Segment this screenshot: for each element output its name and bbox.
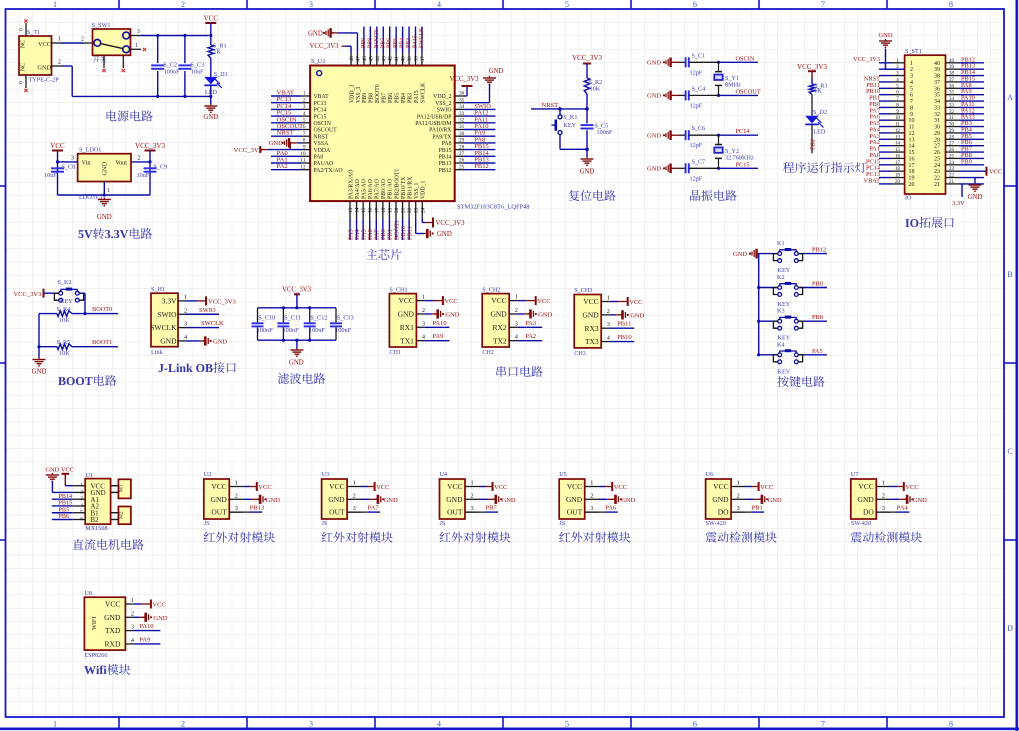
svg-text:PA15: PA15 [413, 35, 419, 48]
svg-text:VBAT: VBAT [864, 177, 881, 184]
svg-text:28: 28 [459, 144, 465, 150]
svg-text:CH2: CH2 [482, 349, 494, 356]
svg-text:GND: GND [37, 65, 51, 72]
svg-text:PB9: PB9 [362, 93, 368, 103]
svg-text:RXD: RXD [105, 640, 121, 649]
svg-text:PB12: PB12 [812, 247, 826, 254]
svg-text:10uF: 10uF [191, 69, 204, 76]
svg-text:2: 2 [471, 492, 474, 499]
svg-text:20: 20 [909, 182, 915, 188]
svg-text:PB8: PB8 [812, 314, 823, 321]
svg-text:PB15: PB15 [59, 501, 73, 507]
svg-text:0: 0 [19, 28, 25, 31]
svg-text:PB1/AO: PB1/AO [388, 179, 394, 199]
svg-text:27: 27 [459, 151, 465, 157]
svg-text:VCC: VCC [713, 482, 728, 491]
svg-text:26: 26 [459, 158, 465, 164]
svg-text:PA2: PA2 [277, 163, 288, 170]
svg-text:VDDA: VDDA [314, 148, 332, 154]
svg-text:17: 17 [909, 163, 915, 169]
svg-text:2: 2 [910, 67, 913, 73]
svg-text:35: 35 [949, 91, 955, 96]
svg-text:39: 39 [407, 56, 413, 62]
svg-text:1: 1 [135, 43, 138, 49]
svg-text:S_T1: S_T1 [27, 29, 40, 36]
svg-text:VCC_3V3: VCC_3V3 [14, 291, 42, 298]
svg-text:VCC_3V3: VCC_3V3 [436, 220, 466, 227]
svg-text:PB5: PB5 [393, 38, 399, 48]
svg-text:12: 12 [909, 131, 915, 137]
svg-text:PA4: PA4 [897, 505, 909, 512]
svg-text:CH1: CH1 [389, 349, 401, 356]
svg-text:32: 32 [949, 110, 955, 115]
svg-text:1: 1 [235, 480, 238, 487]
svg-text:13: 13 [909, 137, 915, 143]
svg-text:PB6: PB6 [388, 93, 394, 103]
svg-text:VCC: VCC [567, 482, 582, 491]
svg-text:VBAT: VBAT [314, 94, 330, 100]
svg-text:3: 3 [235, 505, 238, 512]
svg-text:GND: GND [913, 497, 927, 504]
svg-text:10uF: 10uF [44, 172, 57, 179]
svg-text:GND: GND [647, 93, 661, 100]
svg-text:46: 46 [362, 56, 368, 62]
svg-text:VCC: VCC [760, 484, 773, 491]
svg-text:S_C6: S_C6 [692, 125, 706, 132]
svg-text:GND: GND [266, 497, 280, 504]
svg-text:PB2/BOOT1: PB2/BOOT1 [394, 169, 400, 199]
svg-text:8: 8 [303, 138, 306, 144]
svg-text:VCC: VCC [905, 484, 918, 491]
svg-text:37: 37 [934, 80, 940, 86]
svg-text:Vout: Vout [115, 160, 127, 167]
svg-text:3: 3 [309, 719, 313, 728]
svg-text:GND: GND [582, 310, 599, 319]
svg-text:PB14: PB14 [439, 155, 452, 161]
svg-text:RX1: RX1 [400, 323, 414, 332]
svg-text:VCC: VCC [38, 41, 51, 48]
svg-text:10K: 10K [590, 86, 601, 93]
svg-text:30: 30 [934, 125, 940, 131]
svg-text:6: 6 [693, 719, 697, 728]
svg-text:S_CH2: S_CH2 [482, 286, 500, 293]
svg-text:GND: GND [647, 133, 661, 140]
svg-text:U5: U5 [559, 471, 567, 478]
svg-text:GND: GND [102, 161, 109, 175]
svg-text:25: 25 [459, 164, 465, 170]
svg-text:3.3V: 3.3V [162, 297, 177, 306]
svg-text:PA2/TX/AO: PA2/TX/AO [314, 168, 343, 174]
svg-text:PC13: PC13 [314, 101, 327, 107]
svg-text:BOOT1: BOOT1 [92, 339, 112, 346]
svg-text:GND: GND [153, 615, 167, 622]
svg-text:18: 18 [381, 207, 387, 213]
svg-text:32: 32 [459, 118, 465, 124]
svg-text:21: 21 [934, 182, 940, 188]
svg-text:OSCIN: OSCIN [736, 55, 755, 62]
svg-text:2: 2 [58, 60, 61, 66]
svg-text:PA10: PA10 [432, 320, 446, 327]
svg-text:S_C13: S_C13 [337, 315, 354, 322]
svg-text:PA10: PA10 [139, 623, 153, 630]
svg-text:2: 2 [353, 492, 356, 499]
svg-text:S_U1: S_U1 [311, 58, 326, 65]
svg-text:1: 1 [737, 480, 740, 487]
svg-text:PB12: PB12 [474, 163, 488, 170]
svg-text:ESP8266: ESP8266 [84, 652, 107, 659]
svg-text:PC14: PC14 [314, 108, 327, 114]
svg-text:BOOT0: BOOT0 [374, 29, 380, 48]
svg-text:38: 38 [414, 56, 420, 62]
svg-text:3: 3 [590, 505, 593, 512]
svg-text:30: 30 [949, 123, 955, 128]
svg-text:SWCLK: SWCLK [150, 323, 177, 332]
svg-text:1: 1 [303, 91, 306, 97]
svg-text:29: 29 [459, 138, 465, 144]
svg-text:VCC: VCC [537, 298, 550, 305]
svg-text:LED: LED [813, 128, 826, 135]
svg-text:VCC_3V3: VCC_3V3 [853, 56, 880, 63]
svg-text:2: 2 [882, 492, 885, 499]
svg-text:21: 21 [949, 180, 955, 185]
svg-text:JS: JS [559, 520, 565, 527]
svg-text:22: 22 [407, 207, 413, 213]
svg-text:8: 8 [910, 105, 913, 111]
svg-text:PB4: PB4 [401, 93, 407, 103]
svg-text:1: 1 [607, 295, 610, 302]
svg-text:15: 15 [909, 150, 915, 156]
svg-text:15: 15 [361, 207, 367, 213]
svg-text:S_K2: S_K2 [58, 279, 72, 286]
svg-text:K4: K4 [777, 341, 785, 348]
svg-text:B2: B2 [91, 516, 100, 524]
svg-text:S_C8: S_C8 [62, 164, 76, 171]
svg-text:1: 1 [882, 480, 885, 487]
svg-text:37: 37 [420, 56, 426, 62]
svg-text:2: 2 [737, 492, 740, 499]
svg-text:VSS_1: VSS_1 [414, 182, 420, 199]
svg-text:S_C4: S_C4 [692, 85, 706, 92]
svg-text:41: 41 [394, 56, 400, 62]
svg-text:32.768KHz: 32.768KHz [725, 154, 754, 161]
svg-text:VCC: VCC [376, 484, 389, 491]
svg-text:PA7: PA7 [368, 505, 380, 512]
svg-text:3: 3 [607, 321, 610, 328]
svg-text:SW-420: SW-420 [851, 520, 871, 527]
svg-text:VCC: VCC [494, 484, 507, 491]
svg-text:PA6/AO: PA6/AO [368, 179, 374, 199]
svg-text:STM32F103C8T6_LQFP48: STM32F103C8T6_LQFP48 [457, 204, 529, 211]
svg-text:TX2: TX2 [493, 336, 507, 345]
svg-text:VCC: VCC [398, 296, 413, 305]
svg-text:PB5: PB5 [394, 93, 400, 103]
svg-text:VCC: VCC [61, 467, 74, 474]
svg-text:PB2: PB2 [809, 139, 816, 150]
svg-text:2: 2 [80, 489, 83, 495]
svg-text:3: 3 [353, 505, 356, 512]
svg-text:B: B [1007, 270, 1012, 279]
svg-text:CH3: CH3 [574, 350, 586, 357]
svg-text:6: 6 [693, 0, 697, 9]
svg-text:1: 1 [53, 719, 57, 728]
svg-text:TYPE-C-2P: TYPE-C-2P [29, 77, 60, 84]
svg-text:VCC_3V3: VCC_3V3 [135, 142, 165, 150]
svg-text:1: 1 [910, 61, 913, 67]
svg-text:5: 5 [910, 86, 913, 92]
svg-text:19: 19 [909, 176, 915, 182]
svg-text:K2: K2 [777, 274, 785, 281]
svg-text:NRST: NRST [314, 134, 329, 140]
svg-text:23: 23 [414, 207, 420, 213]
svg-text:GND: GND [712, 495, 729, 504]
svg-text:S_LDO1: S_LDO1 [79, 147, 101, 154]
svg-text:JS: JS [204, 520, 210, 527]
svg-text:2: 2 [131, 610, 134, 617]
svg-text:12pF: 12pF [690, 175, 703, 182]
svg-text:1: 1 [184, 294, 187, 301]
svg-text:GND: GND [630, 312, 644, 319]
svg-text:PA10/RX: PA10/RX [429, 128, 452, 134]
svg-text:PB13: PB13 [250, 505, 264, 512]
svg-text:100nF: 100nF [597, 129, 613, 136]
svg-text:3: 3 [910, 74, 913, 80]
svg-text:33: 33 [949, 103, 955, 108]
svg-text:3: 3 [303, 104, 306, 110]
svg-text:34: 34 [459, 104, 465, 110]
svg-text:2: 2 [235, 492, 238, 499]
svg-text:M1: M1 [119, 484, 125, 492]
svg-text:40: 40 [934, 61, 940, 67]
svg-text:TX3: TX3 [585, 337, 599, 346]
svg-text:25: 25 [949, 154, 955, 159]
svg-text:NC: NC [21, 63, 27, 71]
svg-text:S_CH1: S_CH1 [389, 286, 407, 293]
svg-text:22: 22 [934, 176, 940, 182]
svg-text:VCC: VCC [50, 142, 65, 150]
svg-text:M2: M2 [119, 511, 125, 519]
svg-text:JS: JS [440, 520, 446, 527]
svg-text:PB7: PB7 [486, 505, 498, 512]
svg-text:MX1508: MX1508 [85, 525, 107, 532]
svg-text:PC15: PC15 [314, 114, 327, 120]
svg-text:S_SW1: S_SW1 [92, 22, 111, 29]
svg-text:PB11: PB11 [406, 226, 413, 240]
svg-text:KEY: KEY [563, 122, 576, 129]
svg-text:39: 39 [934, 67, 940, 73]
svg-text:VCC_3V3: VCC_3V3 [208, 298, 236, 305]
svg-text:S_C10: S_C10 [258, 315, 275, 322]
svg-text:S_ST1: S_ST1 [905, 48, 922, 55]
svg-text:12: 12 [300, 164, 306, 170]
svg-text:2: 2 [590, 492, 593, 499]
svg-text:1K: 1K [814, 88, 822, 95]
svg-text:2: 2 [607, 308, 610, 315]
svg-text:100nF: 100nF [257, 327, 274, 334]
svg-text:8: 8 [949, 0, 953, 9]
svg-text:PB14: PB14 [59, 494, 73, 500]
svg-text:3: 3 [137, 29, 140, 35]
svg-text:31: 31 [934, 118, 940, 124]
svg-text:2: 2 [303, 97, 306, 103]
svg-text:GND: GND [269, 140, 284, 147]
svg-text:RX2: RX2 [493, 323, 507, 332]
svg-text:35: 35 [459, 97, 465, 103]
svg-text:3: 3 [71, 155, 74, 161]
svg-text:GND: GND [398, 310, 415, 319]
svg-text:DO: DO [718, 508, 729, 517]
svg-text:100nF: 100nF [335, 327, 352, 334]
svg-text:GND: GND [32, 369, 47, 376]
svg-text:GND: GND [768, 497, 782, 504]
svg-text:100nF: 100nF [283, 327, 300, 334]
svg-text:S_K1: S_K1 [563, 114, 577, 121]
svg-text:VCC: VCC [152, 602, 165, 609]
svg-text:GND: GND [104, 613, 121, 622]
svg-text:36: 36 [934, 86, 940, 92]
svg-text:GND: GND [490, 310, 507, 319]
svg-text:GND: GND [213, 338, 227, 345]
svg-text:GND: GND [489, 68, 504, 75]
svg-text:23: 23 [949, 167, 955, 172]
svg-text:13: 13 [895, 135, 901, 140]
svg-text:11: 11 [895, 123, 900, 128]
svg-text:47: 47 [355, 56, 361, 62]
svg-text:RX3: RX3 [585, 324, 599, 333]
svg-text:NRST: NRST [277, 130, 294, 137]
svg-text:14: 14 [355, 207, 361, 213]
svg-text:PA3: PA3 [525, 320, 536, 327]
svg-text:S_R5: S_R5 [57, 339, 71, 346]
svg-text:S_D2: S_D2 [813, 109, 827, 116]
svg-text:PB6: PB6 [387, 38, 393, 48]
svg-text:VCC: VCC [105, 600, 120, 609]
svg-text:0: 0 [19, 81, 25, 84]
svg-text:1: 1 [515, 294, 518, 301]
svg-text:PB0: PB0 [812, 281, 823, 288]
svg-text:3: 3 [737, 505, 740, 512]
svg-text:2: 2 [422, 307, 425, 314]
svg-text:VCC: VCC [583, 297, 598, 306]
svg-text:GND: GND [733, 251, 747, 258]
svg-text:12pF: 12pF [690, 102, 703, 109]
svg-text:6: 6 [910, 93, 913, 99]
svg-text:33: 33 [459, 111, 465, 117]
svg-text:GND: GND [647, 60, 661, 67]
svg-text:4: 4 [303, 111, 306, 117]
svg-text:1K: 1K [213, 49, 221, 56]
svg-text:VCC_3V3: VCC_3V3 [572, 54, 602, 62]
svg-text:1: 1 [80, 483, 83, 489]
svg-text:17: 17 [374, 207, 380, 213]
svg-text:PA8: PA8 [442, 141, 452, 147]
svg-text:PA5: PA5 [812, 348, 823, 355]
svg-text:37: 37 [949, 78, 955, 83]
svg-text:2: 2 [181, 0, 185, 9]
svg-text:1: 1 [131, 597, 134, 604]
svg-text:3: 3 [471, 505, 474, 512]
svg-text:PB4: PB4 [400, 38, 406, 48]
svg-text:OSCIN: OSCIN [314, 121, 332, 127]
svg-text:19: 19 [895, 174, 901, 179]
svg-text:40: 40 [401, 56, 407, 62]
svg-text:PB8: PB8 [367, 38, 373, 48]
svg-text:PB11: PB11 [617, 321, 631, 328]
svg-text:48: 48 [349, 56, 355, 62]
svg-text:3.3V: 3.3V [952, 200, 965, 207]
svg-text:18: 18 [909, 169, 915, 175]
svg-text:PA0: PA0 [314, 155, 324, 161]
svg-text:VDD_3: VDD_3 [349, 85, 355, 103]
svg-text:PB3: PB3 [406, 38, 412, 48]
svg-text:14: 14 [895, 142, 901, 147]
svg-text:S_H1: S_H1 [151, 286, 165, 293]
svg-text:S_C7: S_C7 [692, 158, 706, 165]
svg-text:GND: GND [647, 166, 661, 173]
svg-text:U7: U7 [851, 471, 859, 478]
svg-text:U2: U2 [204, 471, 212, 478]
svg-text:PA11/USB/DM: PA11/USB/DM [415, 121, 451, 127]
svg-text:7: 7 [910, 99, 913, 105]
svg-text:31: 31 [459, 124, 465, 130]
svg-text:GND: GND [502, 497, 516, 504]
svg-text:10K: 10K [59, 350, 70, 357]
svg-text:17: 17 [895, 161, 901, 166]
svg-text:U4: U4 [440, 471, 448, 478]
svg-text:16: 16 [909, 156, 915, 162]
svg-text:PB10/TX: PB10/TX [401, 176, 407, 199]
svg-text:3: 3 [882, 505, 885, 512]
svg-text:2: 2 [181, 719, 185, 728]
svg-text:16: 16 [368, 207, 374, 213]
svg-text:20: 20 [394, 207, 400, 213]
svg-text:NC: NC [21, 40, 27, 48]
svg-text:20: 20 [895, 180, 901, 185]
svg-text:1: 1 [53, 0, 57, 9]
svg-text:GND: GND [566, 495, 583, 504]
svg-text:10: 10 [895, 116, 901, 121]
svg-text:36: 36 [459, 91, 465, 97]
svg-text:VCC: VCC [211, 482, 226, 491]
svg-text:1: 1 [353, 480, 356, 487]
svg-text:22: 22 [949, 174, 955, 179]
svg-text:31: 31 [949, 116, 955, 121]
svg-text:2: 2 [515, 307, 518, 314]
svg-text:VSSA: VSSA [314, 141, 330, 147]
svg-text:D: D [1007, 624, 1013, 633]
svg-text:VDD_1: VDD_1 [421, 181, 427, 199]
svg-text:PC14: PC14 [736, 128, 751, 135]
svg-text:OUT: OUT [447, 508, 463, 517]
svg-text:Link: Link [151, 349, 164, 356]
svg-text:GND: GND [46, 467, 60, 474]
svg-text:12pF: 12pF [690, 142, 703, 149]
svg-text:26: 26 [949, 148, 955, 153]
svg-text:PA3/RX/AO: PA3/RX/AO [348, 170, 354, 199]
svg-text:OUT: OUT [211, 508, 227, 517]
svg-text:A: A [1007, 93, 1013, 102]
svg-text:GND: GND [97, 214, 112, 221]
svg-text:GND: GND [308, 31, 323, 38]
svg-text:PB0/AO: PB0/AO [381, 179, 387, 199]
svg-text:44: 44 [375, 56, 381, 62]
svg-text:PA2: PA2 [525, 333, 536, 340]
svg-text:S_C1: S_C1 [692, 52, 706, 59]
svg-text:10K: 10K [59, 317, 70, 324]
svg-text:24: 24 [949, 161, 955, 166]
svg-text:U6: U6 [706, 471, 714, 478]
svg-text:PB6: PB6 [59, 514, 70, 520]
svg-text:GND: GND [580, 169, 595, 176]
